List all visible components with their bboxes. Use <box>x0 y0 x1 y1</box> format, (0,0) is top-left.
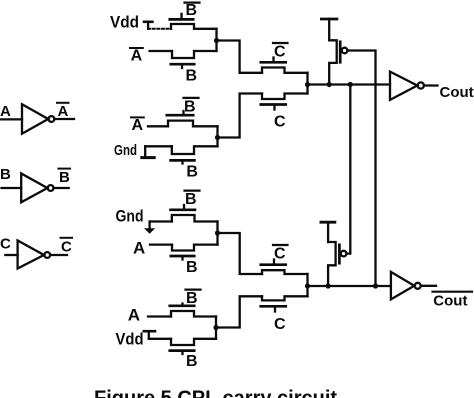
svg-text:B: B <box>186 290 198 307</box>
svg-text:B: B <box>186 259 198 276</box>
svg-text:B: B <box>0 166 11 183</box>
svg-text:C: C <box>274 245 286 262</box>
node: block2 output merge <box>215 126 220 146</box>
label Bbar (gate of M3) <box>184 98 199 115</box>
svg-text:Cout: Cout <box>440 84 474 101</box>
svg-text:B: B <box>184 98 196 115</box>
wire: Vdd lead to M1 (dashed in scan) <box>148 28 171 30</box>
junction: MP2 drain on bottom node <box>326 283 331 288</box>
wire: Vdd lead to M10 <box>149 338 171 340</box>
svg-text:B: B <box>186 353 198 370</box>
label Cbar <box>61 238 73 256</box>
transistor M2 (pass, gate B, block1 bottom) <box>171 51 217 68</box>
label Abar <box>57 103 69 120</box>
label Bbar (gate of M7) <box>185 191 200 208</box>
wire: Abar lead to M2 <box>150 50 172 52</box>
transistor M7 (pass, gate Bbar, block3 top) <box>171 205 218 222</box>
wire: U1 output Abar <box>54 118 74 120</box>
svg-text:A: A <box>0 103 11 120</box>
wire: Abar lead to M3 <box>148 125 168 127</box>
wire: B to U2 input <box>2 187 22 189</box>
svg-text:A: A <box>132 117 144 134</box>
node: stage2-top output merge <box>305 73 310 94</box>
junction: feedback tap on top node <box>348 82 353 87</box>
inverter U4 <box>390 72 424 100</box>
junction: MP1 gate line on bottom node <box>373 283 378 288</box>
wire: bottom internal node to inverter U5 <box>308 285 391 287</box>
transistor M8 (pass, gate B, block3 bottom) <box>171 245 218 260</box>
wire: A to U1 input <box>0 118 22 120</box>
wire: U4 output <box>424 84 438 86</box>
svg-text:C: C <box>274 114 286 131</box>
svg-text:B: B <box>186 2 198 19</box>
inverter U3 <box>18 241 51 269</box>
transistor M12 (pass, gate C, stage2-bottom lower) <box>261 296 308 311</box>
wire: block2 output to stage2 bottom input <box>218 94 263 138</box>
wire: U2 output Bbar <box>54 187 69 189</box>
inverter U5 <box>391 272 421 300</box>
label Bbar (gate of M1) <box>185 2 200 19</box>
svg-text:B: B <box>186 68 198 85</box>
svg-text:Vdd: Vdd <box>116 331 144 349</box>
svg-text:Vdd: Vdd <box>110 13 139 32</box>
wire: block1 output to stage2 top input <box>217 41 263 73</box>
Vdd terminal T2 (top pull-up rail) <box>321 19 337 40</box>
svg-text:Cout: Cout <box>433 292 467 309</box>
svg-text:B: B <box>186 164 198 181</box>
svg-text:Gnd: Gnd <box>116 206 144 225</box>
label Cbar (gate of M5) <box>273 43 288 60</box>
ground terminal G1 <box>142 146 154 157</box>
Vdd terminal T3 <box>144 331 155 339</box>
inverter U1 <box>22 104 54 134</box>
svg-text:C: C <box>61 239 72 256</box>
label Abar (block2 top input) <box>131 117 144 134</box>
label Bbar <box>59 169 71 186</box>
transistor M9 (pass, gate Bbar, block4 top) <box>170 304 216 317</box>
wire: U5 output <box>421 285 436 287</box>
inverter U2 <box>21 174 53 203</box>
label Abar (block1 lower input) <box>130 48 143 65</box>
wire: top internal node to inverter U4 <box>308 83 391 85</box>
wire: Gnd lead to M7 <box>150 220 172 222</box>
svg-text:B: B <box>185 191 197 208</box>
wire: Gnd lead to M4 <box>145 145 172 147</box>
wire: C to U3 input <box>5 254 17 256</box>
label Coutbar (bottom output) <box>433 292 473 310</box>
transistor M1 (pass, gate Bbar, block1 top) <box>170 14 217 29</box>
junction: MP1 drain on top node <box>327 82 332 87</box>
wire: block3 output to stage2-bottom top input <box>218 233 263 274</box>
svg-text:B: B <box>59 169 70 186</box>
wire: MP2 gate to top node <box>346 85 350 254</box>
svg-text:Gnd: Gnd <box>114 143 137 159</box>
svg-text:C: C <box>274 43 286 60</box>
node: stage2-bottom output merge <box>305 274 310 296</box>
transistor M5 (pass, gate Cbar, stage2-top upper) <box>261 58 308 73</box>
Vdd terminal T1 <box>144 22 152 29</box>
svg-text:Figure 5 CPL carry circuit: Figure 5 CPL carry circuit <box>94 388 337 398</box>
svg-text:A: A <box>131 48 143 65</box>
svg-text:A: A <box>133 239 145 258</box>
transistor M3 (pass, gate Bbar, block2 top) <box>167 111 218 126</box>
transistor MP2 (PMOS level restorer, bottom) <box>328 242 346 286</box>
node: block3 output merge <box>215 222 220 245</box>
svg-text:C: C <box>0 236 11 253</box>
label Bbar (gate of M9) <box>186 290 201 307</box>
wire: A lead to M9 <box>148 315 171 317</box>
svg-text:A: A <box>58 103 69 120</box>
transistor M11 (pass, gate Cbar, stage2-bottom upper) <box>261 260 308 275</box>
wire: U3 output Cbar <box>50 254 67 256</box>
svg-text:C: C <box>274 316 286 333</box>
node: block4 output merge <box>213 317 218 339</box>
ground terminal G2 (arrow) <box>144 222 155 234</box>
transistor MP1 (PMOS level restorer, top) <box>329 40 347 84</box>
wire: A lead to M8 <box>150 243 172 245</box>
label Cbar (gate of M11) <box>273 245 288 262</box>
wire: MP1 gate to bottom node (crosses top node) <box>347 51 375 287</box>
transistor M10 (pass, gate B, block4 bottom) <box>170 339 216 354</box>
node: block1 output merge <box>214 29 219 51</box>
Vdd terminal T4 (bottom pull-up rail) <box>321 222 335 242</box>
svg-text:A: A <box>128 305 140 324</box>
transistor M6 (pass, gate C, stage2-top lower) <box>261 94 308 110</box>
wire: block4 output to stage2-bottom lower input <box>216 296 262 327</box>
transistor M4 (pass, gate B, block2 bottom) <box>171 146 218 163</box>
